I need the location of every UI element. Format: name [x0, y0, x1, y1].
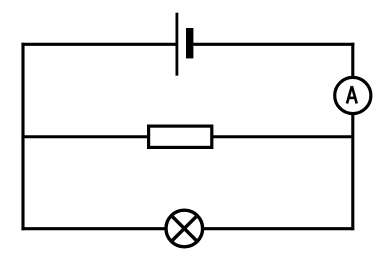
ammeter A1: circle body: [335, 77, 371, 113]
wire: top-right horizontal segment (battery to right wire): [193, 43, 354, 46]
wire: bottom horizontal side (through lamp): [21, 227, 352, 230]
battery cell B1: long positive plate: [175, 13, 178, 76]
lamp L1: cross stroke (/): [173, 217, 197, 241]
ammeter A1: letter A: [347, 86, 357, 103]
wire: left vertical side: [21, 43, 24, 231]
resistor R1: [149, 126, 212, 147]
wire: right vertical side (through ammeter): [351, 43, 354, 231]
wire: middle horizontal branch (through resistor): [21, 135, 352, 138]
lamp L1: circle body: [166, 210, 203, 247]
battery cell B1: short thick negative plate: [186, 28, 193, 58]
wire: top-left horizontal segment (left wire to battery): [21, 43, 175, 46]
lamp L1: cross stroke (\): [173, 217, 197, 241]
